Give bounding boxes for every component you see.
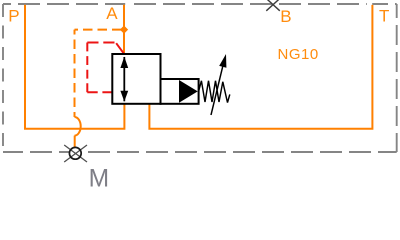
svg-text:B: B: [280, 7, 291, 26]
wire A port line (top border down to valve top): [123, 5, 125, 55]
pilot stage box: [161, 79, 199, 104]
enclosure left edge: [2, 4, 4, 152]
line hop over P line: [75, 117, 81, 136]
pilot control line bottom run to valve (red dashed): [87, 91, 112, 93]
svg-text:M: M: [89, 165, 110, 192]
enclosure bottom edge: [3, 151, 397, 153]
pilot control line left run (red dashed): [86, 43, 88, 93]
junction node on A line (diamond): [120, 26, 128, 34]
valve main body: [112, 54, 160, 104]
border gap at port A: [125, 3, 132, 6]
enclosure top edge: [3, 3, 397, 5]
flow path line inside valve: [123, 57, 125, 101]
svg-text:NG10: NG10: [278, 46, 319, 63]
adjustment arrow head: [219, 54, 226, 68]
port B plug (closed port X on border): [266, 0, 280, 11]
flow arrowhead up: [120, 57, 128, 68]
pilot/measuring passage vertical (orange dashed): [74, 30, 76, 117]
spring: [199, 81, 230, 103]
svg-text:T: T: [379, 6, 389, 25]
flow arrowhead down: [120, 91, 128, 102]
wire T port line (valve bottom right port, down, right, up to T): [149, 5, 372, 129]
pilot control line top run (red dashed): [87, 42, 114, 44]
svg-text:P: P: [8, 7, 19, 26]
pilot cone triangle: [179, 80, 198, 103]
pilot control line tap (red, diagonal from valve top): [116, 43, 124, 54]
wire hop to measuring point: [74, 136, 76, 148]
measuring point M (circle with X on border): [69, 147, 81, 159]
pilot/measuring passage A to M horizontal (orange dashed): [75, 29, 122, 31]
subplate enclosure (gray dashed frame): [3, 4, 397, 152]
enclosure right edge: [396, 4, 398, 152]
wire P port line (P down, right, up to valve bottom left port): [25, 5, 124, 129]
adjustment arrow shaft: [211, 65, 223, 116]
border gap at port T: [367, 3, 372, 6]
svg-text:A: A: [106, 4, 118, 23]
